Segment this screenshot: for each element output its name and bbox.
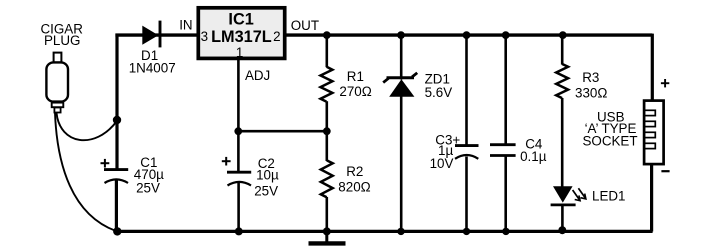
label plus terminal bbox=[661, 79, 669, 87]
wire left vertical (input) bbox=[115, 34, 119, 232]
node ground-left corner junction bbox=[113, 227, 121, 235]
svg-text:10V: 10V bbox=[430, 156, 454, 171]
zener diode ZD1 bbox=[383, 34, 417, 232]
svg-text:ZD1: ZD1 bbox=[425, 71, 450, 86]
svg-text:1N4007: 1N4007 bbox=[129, 61, 176, 76]
node C3 bottom bbox=[463, 228, 470, 235]
USB socket bbox=[644, 101, 664, 165]
svg-text:25V: 25V bbox=[254, 183, 278, 198]
ground bbox=[309, 231, 346, 243]
capacitor C4 bbox=[490, 34, 516, 232]
svg-text:R3: R3 bbox=[582, 70, 599, 85]
resistor R1 bbox=[321, 67, 333, 102]
node R1-R2 junction bbox=[323, 127, 331, 135]
resistor R3 bbox=[556, 64, 568, 98]
wire node to R2 bbox=[325, 131, 328, 161]
svg-text:LM317L: LM317L bbox=[211, 28, 272, 46]
wire plug to ground rail bbox=[55, 113, 116, 231]
wire ADJ to R2 node bbox=[238, 130, 326, 133]
op-amp IC1 regulator box bbox=[198, 8, 284, 59]
node R3 top bbox=[559, 31, 567, 39]
node C4 top bbox=[502, 31, 510, 39]
node C2 bottom junction bbox=[235, 227, 243, 235]
wire plug to input node bbox=[57, 113, 117, 140]
svg-text:R1: R1 bbox=[347, 69, 364, 84]
wire top rail bbox=[115, 33, 652, 36]
wire right vertical to USB socket bbox=[651, 34, 654, 102]
svg-text:IC1: IC1 bbox=[228, 11, 253, 29]
wire bottom rail (ground) bbox=[116, 230, 653, 233]
svg-text:270Ω: 270Ω bbox=[339, 84, 371, 99]
capacitor C1 bbox=[101, 159, 129, 183]
node ZD1 bottom bbox=[397, 228, 404, 235]
svg-text:3: 3 bbox=[201, 29, 208, 44]
svg-text:5.6V: 5.6V bbox=[425, 85, 453, 100]
node ADJ junction bbox=[234, 127, 242, 135]
capacitor C2 bbox=[222, 131, 251, 231]
svg-text:0.1µ: 0.1µ bbox=[520, 149, 547, 164]
node LED bottom junction bbox=[558, 226, 566, 234]
wire R2 to ground rail bbox=[325, 197, 328, 231]
svg-text:820Ω: 820Ω bbox=[338, 180, 370, 195]
node ZD1 top bbox=[397, 31, 405, 39]
svg-text:OUT: OUT bbox=[291, 18, 319, 33]
node R2 ground junction bbox=[323, 227, 331, 235]
resistor R2 bbox=[321, 160, 333, 197]
svg-text:10µ: 10µ bbox=[256, 168, 279, 183]
label minus terminal bbox=[661, 170, 669, 172]
wire R1 to node bbox=[325, 101, 328, 131]
capacitor C3 bbox=[455, 34, 479, 232]
svg-text:PLUG: PLUG bbox=[44, 33, 80, 48]
node OUT junction bbox=[323, 31, 331, 39]
svg-text:LED1: LED1 bbox=[592, 188, 626, 203]
svg-text:1: 1 bbox=[236, 45, 243, 60]
svg-text:330Ω: 330Ω bbox=[575, 86, 607, 101]
wire OUT node to R1 bbox=[325, 34, 328, 68]
wire rail to R3 bbox=[561, 34, 564, 65]
node C4 bottom bbox=[502, 228, 509, 235]
svg-text:25V: 25V bbox=[136, 181, 160, 196]
node input junction bbox=[113, 116, 121, 124]
diode D1 bbox=[142, 21, 160, 48]
svg-text:2: 2 bbox=[273, 29, 280, 44]
svg-text:R2: R2 bbox=[346, 164, 363, 179]
svg-text:SOCKET: SOCKET bbox=[582, 133, 637, 148]
wire ADJ pin down bbox=[237, 60, 240, 131]
wire USB socket to bottom rail bbox=[650, 164, 653, 232]
wire R3 to LED1 bbox=[561, 98, 564, 187]
wire LED1 to bottom rail bbox=[561, 205, 564, 232]
LED LED1 bbox=[551, 186, 586, 205]
svg-text:IN: IN bbox=[179, 18, 192, 33]
cigar plug connector bbox=[46, 53, 68, 113]
svg-text:ADJ: ADJ bbox=[245, 68, 270, 83]
node C3 top bbox=[463, 31, 471, 39]
